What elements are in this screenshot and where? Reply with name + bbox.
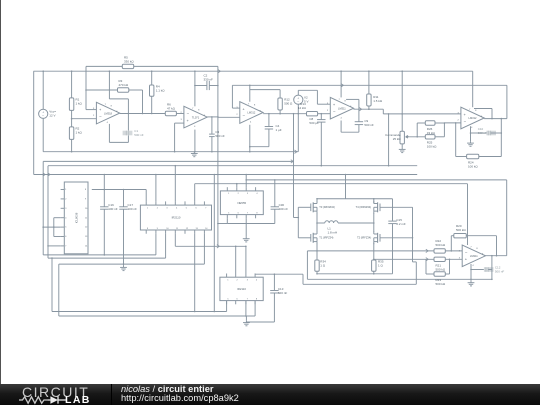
wire bus3: [175, 234, 246, 247]
wire bridge bottom rail: [317, 271, 393, 274]
svg-text:ICL8038: ICL8038: [75, 212, 79, 223]
svg-text:LM312: LM312: [247, 111, 255, 115]
svg-text:500 kΩ: 500 kΩ: [456, 228, 466, 232]
capacitor C4 1 uF: [250, 114, 282, 147]
wire U4 output: [353, 109, 461, 114]
wire mid rail D2: [195, 183, 468, 185]
wire U5 inverting input: [444, 122, 461, 124]
resistor R4 1.1 k: [150, 71, 166, 113]
junction C8 node: [321, 113, 323, 115]
wire U5 V- pin: [470, 126, 472, 141]
svg-text:4: 4: [341, 117, 343, 119]
wire rail A drop: [42, 161, 44, 255]
junction U1 output feedback: [128, 113, 130, 115]
junction left gate tee: [298, 217, 300, 219]
svg-text:500 kΩ: 500 kΩ: [436, 243, 446, 247]
svg-text:7: 7: [469, 109, 471, 111]
svg-text:500 Ω: 500 Ω: [284, 102, 293, 106]
wire mid rail A: [43, 160, 293, 162]
wire U3 supply pin: [249, 85, 251, 101]
svg-text:1.8 mH: 1.8 mH: [328, 231, 338, 235]
transistor T3 IRF9Z34: [311, 199, 335, 214]
svg-text:LM311: LM311: [338, 106, 346, 110]
wire sense 1: [307, 250, 434, 252]
wire R5 net corner down to U2 output column: [217, 66, 219, 246]
svg-text:500 nF: 500 nF: [364, 123, 374, 127]
svg-text:470 kΩ: 470 kΩ: [119, 83, 129, 87]
junction U4 output taps on long line: [388, 113, 403, 115]
wire supply drop into X1 area: [103, 175, 105, 190]
svg-text:8: 8: [198, 109, 200, 111]
junction sense2 tap: [373, 259, 375, 261]
svg-text:T4 (IRF9Z34): T4 (IRF9Z34): [356, 205, 372, 209]
wire mid rail B: [48, 165, 417, 167]
capacitor C13 500 nF: [246, 274, 287, 322]
junction R20 taps: [451, 250, 498, 256]
ground symbol on bus2: [120, 264, 127, 271]
svg-text:2: 2: [327, 110, 329, 112]
junction bottom rail taps: [316, 273, 374, 275]
wire U1 output: [120, 113, 166, 115]
junction rail D taps: [236, 179, 247, 184]
wire big loop left: [52, 258, 227, 311]
wire U2 output to U3 inverting input: [218, 116, 240, 118]
wire right mid column: [373, 213, 375, 232]
wire X1 pin7 to rail B drop: [48, 245, 61, 247]
svg-text:100 nF: 100 nF: [279, 207, 289, 211]
svg-text:T1 (IRFZ34): T1 (IRFZ34): [319, 236, 333, 240]
wire divider to U1 inverting input: [72, 118, 97, 120]
wire sense 2: [374, 258, 434, 260]
wire U4 pin1 strobe: [341, 121, 359, 133]
wire V2 top to U4 plus input: [298, 90, 330, 104]
wire U2 output: [207, 116, 218, 118]
wire 5V net line: [232, 84, 507, 86]
resistor R34 1 Ohm: [315, 260, 326, 272]
wire U6 supply pin: [467, 184, 469, 245]
junction C12 ends: [470, 269, 472, 271]
junction drop on mid rail: [388, 165, 390, 167]
voltage source V1 12 V: [39, 71, 57, 152]
wire X4 inputs from bus3: [236, 246, 246, 273]
resistor R12 500: [250, 90, 293, 114]
IC chip X2 IR2110: [140, 201, 211, 233]
junction V1 top on rail: [42, 70, 44, 72]
wire U4 pin8 box: [346, 98, 359, 100]
wire U4 supply pin: [340, 71, 342, 97]
resistor R5 330 k: [86, 55, 218, 68]
resistor R24 100 k: [456, 119, 502, 169]
resistor R20 500 k: [451, 224, 496, 256]
junction bus3 taps: [235, 246, 237, 248]
wire left gate bus: [298, 207, 311, 238]
svg-text:−: −: [99, 114, 102, 119]
resistor R22 500 k: [434, 239, 462, 253]
ground symbol below X4: [243, 316, 250, 326]
junction pin5 crossing: [42, 226, 54, 228]
svg-text:12 V: 12 V: [49, 114, 55, 118]
wire junction arrow on 5V net: [341, 84, 343, 87]
IC chip X1 ICL8038: [61, 182, 89, 254]
junction U4 supply on rail: [340, 70, 342, 72]
junction U2 plus to ground rail: [174, 151, 176, 153]
svg-text:2.2 mF: 2.2 mF: [396, 222, 406, 226]
junction U5 box output: [491, 118, 493, 120]
svg-text:2: 2: [93, 115, 95, 117]
op-amp U5 LM312: [458, 107, 485, 129]
wire mid rail D1: [246, 179, 507, 181]
junction pot column on rail: [401, 70, 403, 72]
svg-text:1.1 kΩ: 1.1 kΩ: [156, 89, 166, 93]
junction X4 input taps: [245, 246, 247, 248]
junction bridge top taps: [316, 198, 374, 200]
junction R3 to U1 output: [142, 113, 144, 115]
wire X1 pin5 to rail A drop: [43, 226, 60, 228]
svg-text:25 kΩ: 25 kΩ: [393, 137, 402, 141]
svg-text:330 nF: 330 nF: [204, 78, 214, 82]
wire U6 output: [486, 255, 507, 257]
transistor T4 IRF9Z34: [356, 199, 380, 214]
wire left mid column: [316, 213, 318, 232]
svg-text:LM311: LM311: [470, 254, 478, 258]
wire X3 bottom pin left: [218, 218, 227, 223]
svg-text:8: 8: [476, 248, 478, 250]
IC chip X4 IR2110: [220, 274, 263, 305]
junction U2 output node: [217, 116, 219, 118]
wire junction arrow rail A end: [291, 160, 293, 163]
wire U3 plus input from 5V net: [232, 85, 239, 108]
junction R23 to plus input: [449, 259, 451, 261]
resistor R25 100 k: [425, 123, 444, 149]
svg-text:7: 7: [470, 247, 472, 249]
junction U2 supply on rail: [194, 70, 196, 72]
svg-text:100 nF: 100 nF: [108, 207, 118, 211]
svg-text:4: 4: [250, 122, 252, 124]
junction U3 supply on 5V net: [249, 85, 251, 87]
svg-text:500 kΩ: 500 kΩ: [436, 282, 446, 286]
svg-text:LM318: LM318: [104, 111, 112, 115]
wire bottom bus 1b: [48, 234, 166, 258]
wire bus4 ground bus: [59, 264, 247, 316]
svg-text:3: 3: [181, 119, 183, 121]
junction right gate tee: [412, 237, 414, 239]
svg-text:IR2110: IR2110: [172, 216, 181, 220]
capacitor C12 500 nF (selected): [471, 266, 504, 274]
junction R25 R26 to U5 minus: [444, 122, 446, 124]
svg-text:8: 8: [254, 105, 256, 107]
wire balance drop to mid rail: [388, 114, 390, 166]
svg-text:−: −: [187, 111, 190, 116]
wire node A vertical: [86, 66, 96, 109]
svg-text:4: 4: [471, 127, 473, 129]
junction R24 to U5 minus: [455, 122, 457, 124]
svg-text:8: 8: [111, 105, 113, 107]
svg-text:500 nF: 500 nF: [134, 133, 144, 137]
svg-text:7: 7: [105, 104, 107, 106]
svg-text:500 nF: 500 nF: [215, 134, 225, 138]
wire right gate bus: [380, 207, 416, 262]
wire U2 supply pin: [194, 71, 196, 106]
svg-text:1 Ω: 1 Ω: [378, 264, 384, 268]
wire junction arrow on supply rail: [218, 70, 220, 73]
svg-text:−: −: [333, 109, 336, 114]
junction U5 output taps: [501, 118, 503, 120]
op-amp U4 LM311: [327, 97, 354, 119]
voltage source V2 5 V: [294, 90, 309, 151]
svg-text:T2 (IRFZ34): T2 (IRFZ34): [357, 236, 371, 240]
wire T2 source to R35: [373, 243, 375, 260]
wire sense-left drop to ground bus: [306, 251, 308, 279]
op-amp U1 LM318: [93, 102, 120, 124]
svg-text:2: 2: [458, 120, 460, 122]
junction pin7 tap: [47, 245, 49, 247]
capacitor C16 100 nF: [100, 190, 118, 255]
wire long vertical from rail C to bottom bus: [213, 175, 215, 312]
junction rail C taps: [104, 174, 347, 176]
junction L1 ends: [316, 222, 374, 224]
svg-text:500 nF: 500 nF: [478, 131, 488, 135]
junction R11 rail and output: [368, 70, 370, 110]
junction supply at pin wire: [104, 189, 125, 191]
junction X2 feed taps: [175, 165, 177, 167]
svg-text:4: 4: [194, 126, 196, 128]
svg-text:2: 2: [236, 114, 238, 116]
wire U1 supply pin: [108, 71, 110, 99]
svg-text:1 kΩ: 1 kΩ: [76, 102, 83, 106]
wire X1 pin4 pin6 link: [54, 218, 61, 237]
resistor R6 47 k: [165, 103, 184, 116]
svg-text:8: 8: [475, 110, 477, 112]
wire X3 feeds from rails: [237, 175, 246, 188]
resistor R26 33 k: [417, 121, 444, 135]
svg-text:4: 4: [107, 122, 109, 124]
wire output to ground column: [491, 256, 493, 280]
svg-text:100 kΩ: 100 kΩ: [468, 164, 478, 168]
wire U2 V- pin to ground: [194, 130, 196, 152]
capacitor C8 530 uF: [309, 114, 325, 166]
junction node A to R3: [85, 89, 87, 91]
wire U5 output: [484, 118, 507, 120]
wire X4 bottom pins: [227, 301, 256, 316]
op-amp U6 LM311: [459, 245, 486, 267]
junction ground rail taps: [71, 151, 251, 153]
svg-text:100 nF: 100 nF: [128, 207, 138, 211]
svg-text:500 nF: 500 nF: [495, 270, 505, 274]
junction R1 top: [71, 70, 73, 72]
junction C2 ends: [194, 85, 219, 87]
wire 5V net corner to U5 output: [506, 85, 508, 118]
junction C8 bottom: [321, 165, 323, 167]
potentiometer Commande 25 k: [385, 131, 409, 147]
ground symbol below X3: [243, 237, 250, 242]
svg-text:−: −: [242, 113, 245, 118]
junction C4 to U3 pin4: [249, 146, 251, 148]
wire ground bus 6: [307, 278, 492, 280]
svg-text:1 kΩ: 1 kΩ: [76, 131, 83, 135]
junction R12 to U3 output: [279, 113, 281, 115]
junction U1 supply on rail: [109, 70, 111, 72]
junction C10 ends: [470, 132, 502, 134]
junction sense1 taps: [316, 250, 318, 252]
wire junction arrow on U4 output: [359, 108, 361, 111]
wire X1 top-right pin to caps: [92, 190, 146, 202]
svg-text:T3 (IRF9Z34): T3 (IRF9Z34): [319, 205, 335, 209]
wire top ground rail: [43, 151, 298, 153]
junction bus1b taps: [51, 257, 53, 259]
wire junction arrows on rail C: [43, 173, 50, 176]
ground symbol below U6: [468, 279, 475, 286]
ground symbol below U2: [191, 152, 198, 157]
junction X3 to long vertical: [217, 179, 276, 224]
wire X2 pin feeds from rails: [156, 166, 195, 202]
capacitor C1 500 nF (selected): [123, 129, 144, 137]
svg-text:100 kΩ: 100 kΩ: [427, 145, 437, 149]
junction wiper tee: [416, 136, 418, 138]
resistor R1 1 k: [69, 71, 82, 119]
resistor R23 500 k: [426, 259, 450, 286]
inductor L1 1.8 mH: [317, 221, 374, 235]
junction bus1 taps: [104, 254, 106, 256]
ground symbol below potentiometer: [399, 148, 406, 153]
capacitor C2 330 nF: [195, 74, 218, 90]
wire gate drive from U3: [294, 114, 299, 218]
wire rail to potentiometer: [401, 71, 403, 131]
capacitor C17 100 nF: [119, 190, 137, 265]
wire U1 pin8 box: [109, 99, 128, 114]
wire U6 output riser: [506, 180, 508, 256]
wire bottom bus 2: [59, 234, 205, 264]
junction X4 ground taps: [245, 315, 247, 317]
wire junction arrow bus3: [217, 245, 219, 248]
svg-text:7: 7: [248, 103, 250, 105]
capacitor C3 500 nF: [209, 117, 225, 152]
svg-text:7: 7: [192, 108, 194, 110]
svg-text:7: 7: [339, 99, 341, 101]
svg-text:NE555: NE555: [238, 201, 247, 205]
wire bridge feed from rail C: [345, 175, 347, 199]
IC chip X3 NE555: [220, 187, 263, 218]
wire T1 source to R34: [316, 243, 318, 260]
svg-text:1.5 kΩ: 1.5 kΩ: [373, 99, 383, 103]
svg-text:−: −: [464, 119, 467, 124]
junction R1 R2 divider node: [71, 118, 73, 120]
svg-text:500 kΩ: 500 kΩ: [436, 268, 446, 272]
wire X2 pin to loop bus: [194, 234, 196, 312]
svg-text:4: 4: [472, 265, 474, 267]
svg-text:47 kΩ: 47 kΩ: [167, 107, 176, 111]
capacitor C9 500 nF: [355, 99, 374, 132]
svg-text:1 Ω: 1 Ω: [320, 264, 326, 268]
junction bus2 taps: [123, 263, 125, 265]
wire U3 output: [263, 113, 306, 115]
junction C3 top and bottom: [211, 116, 213, 152]
resistor R3 470 k: [86, 79, 143, 114]
wire left supply drop to bottom section: [33, 71, 35, 174]
svg-text:12 kΩ: 12 kΩ: [298, 106, 307, 110]
resistor R11 1.5 k: [367, 71, 383, 109]
wire U6 V- pin: [470, 264, 472, 279]
svg-text:IR2110: IR2110: [237, 287, 246, 291]
wire U5 pin5 box: [474, 109, 492, 119]
wire V+ supply rail: [34, 70, 473, 72]
wire U5 supply pin already drawn: [472, 106, 474, 108]
wire rail end arrow: [295, 150, 297, 153]
resistor R2 1 k: [69, 119, 82, 152]
wire junction arrows into R22 R21: [426, 249, 428, 261]
junction X4 output tap: [274, 273, 276, 275]
wire U1 pin1 lower loop: [109, 114, 128, 143]
junction loop bus taps: [194, 311, 215, 313]
resistor R35 1 Ohm: [372, 260, 384, 272]
transistor T2 IRFZ34: [357, 231, 380, 244]
wire U3 V- pin to ground rail: [249, 125, 251, 152]
resistor R21 500 k: [434, 257, 462, 272]
svg-text:8: 8: [345, 100, 347, 102]
junction U6 output taps: [491, 255, 493, 257]
footer bar: [0, 384, 540, 405]
wire bottom bus 1: [43, 234, 156, 255]
svg-text:TL071: TL071: [192, 115, 200, 119]
svg-text:500 nF: 500 nF: [278, 291, 288, 295]
junction R4 rail and output: [151, 70, 153, 114]
capacitor C15 2.2 mF: [388, 199, 406, 274]
junction C4 top: [268, 113, 270, 115]
wire supply rail corner down to U5 pin 7: [472, 71, 474, 107]
wire rail B drop: [47, 166, 49, 258]
svg-text:LM312: LM312: [469, 116, 477, 120]
junction U3 output taps: [293, 113, 299, 115]
ground symbol below U5: [467, 141, 474, 146]
resistor R13 12 k: [298, 102, 330, 116]
wire U2 non-inverting input: [175, 123, 184, 152]
transistor T1 IRFZ34: [311, 231, 334, 244]
wire mid rail C: [34, 174, 418, 176]
wire pot wiper to R25 R26: [409, 123, 425, 137]
capacitor C10 500 nF (selected): [471, 127, 502, 135]
capacitor C30 100 nF: [227, 180, 288, 224]
op-amp U2 TL071: [181, 106, 208, 128]
svg-text:530 µF: 530 µF: [309, 121, 319, 125]
svg-text:1 µF: 1 µF: [276, 128, 282, 132]
svg-text:−: −: [465, 250, 468, 255]
junction bus6 taps: [470, 279, 493, 281]
wire bridge top rail: [317, 198, 393, 200]
op-amp U3 LM312: [236, 102, 263, 124]
wire X3 ground pin: [245, 218, 247, 237]
svg-text:330 kΩ: 330 kΩ: [124, 59, 134, 63]
wire X4 output to right gates: [255, 262, 416, 284]
